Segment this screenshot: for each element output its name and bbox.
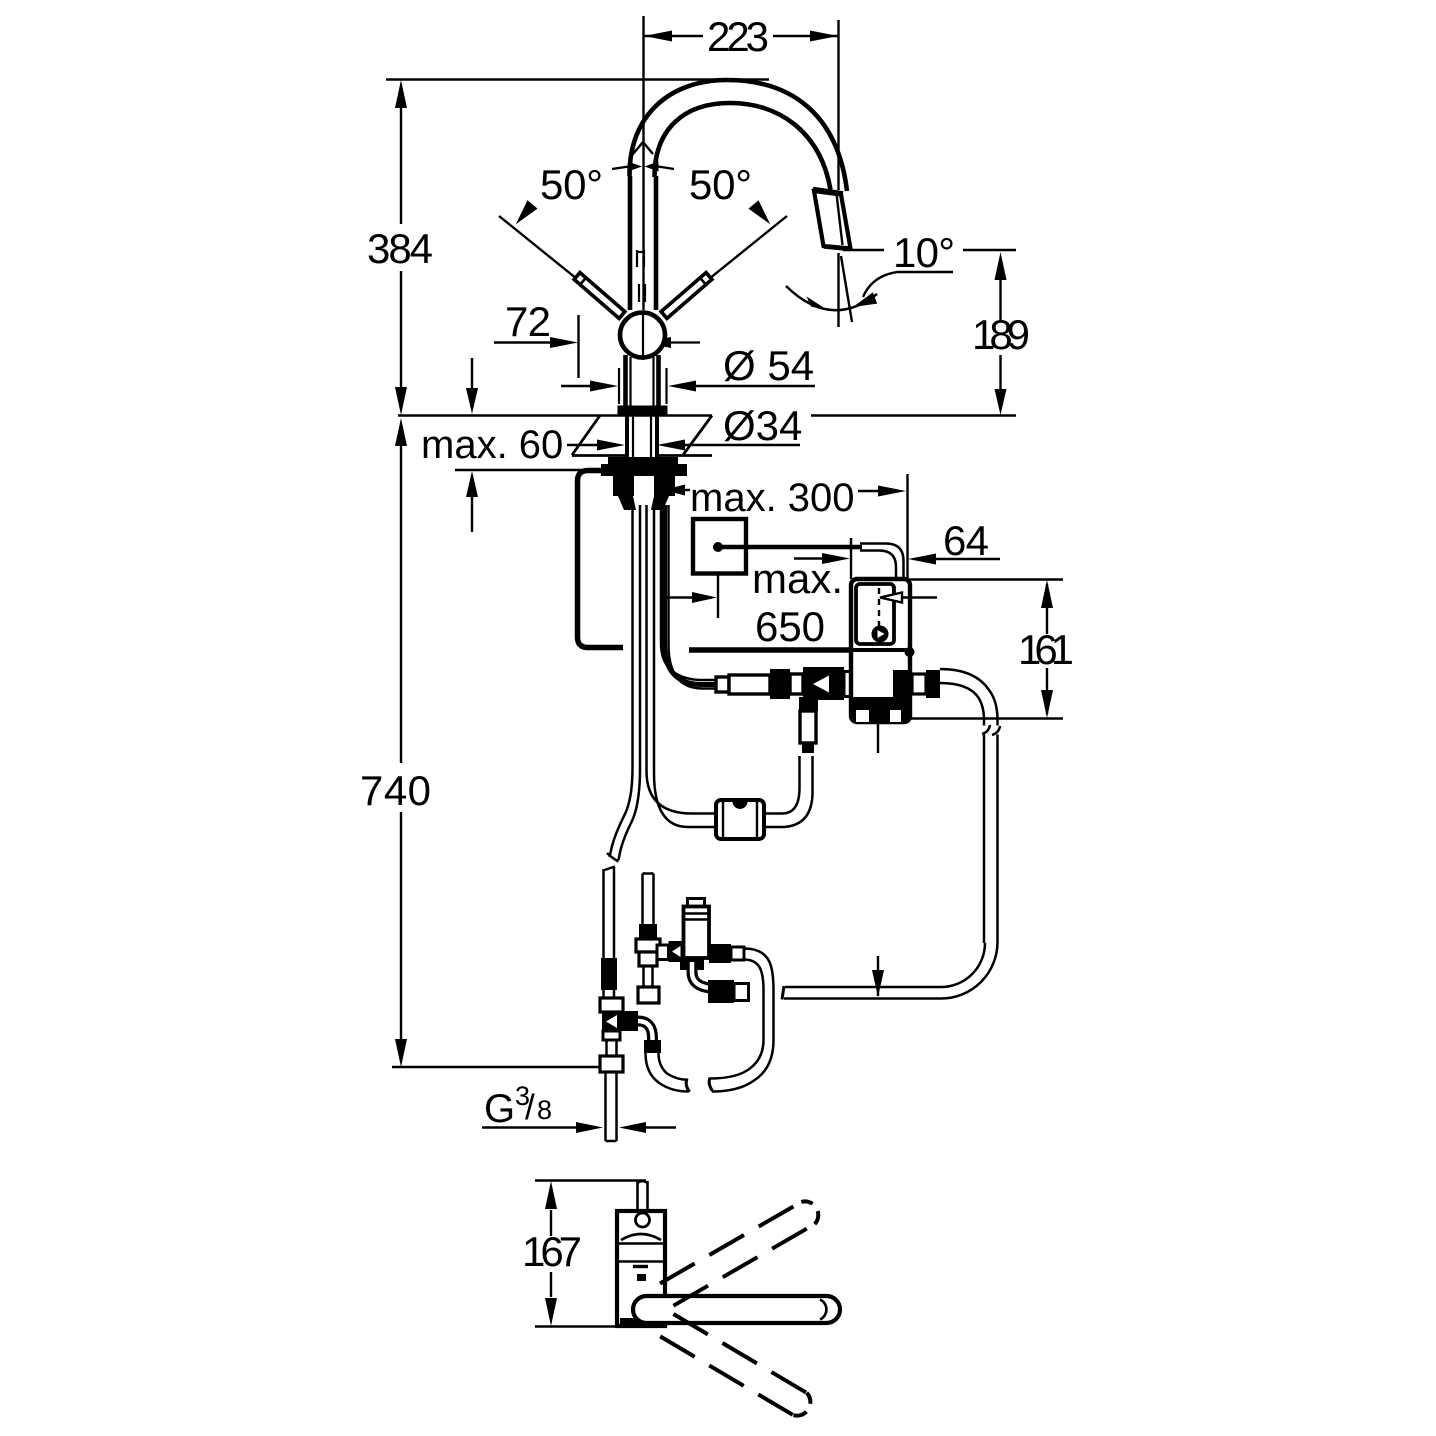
svg-text:max. 300: max. 300 [690, 476, 855, 520]
svg-text:223: 223 [707, 13, 769, 60]
svg-text:Ø 54: Ø 54 [723, 342, 814, 389]
svg-text:/: / [525, 1088, 535, 1127]
svg-text:50°: 50° [540, 161, 603, 208]
svg-text:650: 650 [755, 603, 825, 650]
svg-text:10°: 10° [893, 229, 955, 276]
svg-text:Ø34: Ø34 [723, 402, 802, 449]
svg-text:max. 60: max. 60 [421, 423, 563, 467]
svg-text:50°: 50° [689, 161, 752, 208]
svg-text:G: G [484, 1087, 515, 1131]
svg-text:384: 384 [367, 225, 433, 272]
svg-text:740: 740 [360, 767, 431, 814]
svg-text:72: 72 [505, 298, 551, 345]
svg-text:8: 8 [537, 1095, 552, 1125]
svg-text:64: 64 [943, 517, 989, 564]
svg-text:189: 189 [972, 311, 1030, 358]
